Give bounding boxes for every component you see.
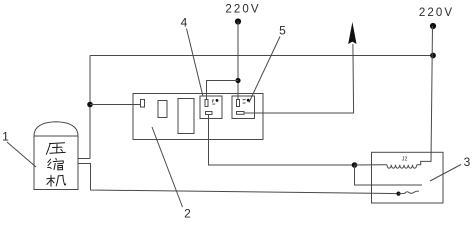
compressor shell [34, 136, 78, 190]
wire branch to relay socket 4 [207, 81, 239, 101]
wire junction to board slot [90, 104, 141, 106]
compressor char 缩 [48, 158, 64, 170]
leader line label 3 [430, 165, 461, 182]
relay 5 dash b [243, 102, 246, 104]
svg-text:220V: 220V [419, 7, 454, 19]
compressor char 压 [46, 143, 65, 155]
leader line label 2 [152, 127, 183, 207]
component rectangle small [158, 101, 167, 118]
svg-text:4: 4 [181, 16, 188, 30]
wire junction down to switch contact [355, 165, 423, 185]
junction dot heater feed [352, 162, 358, 168]
junction dot drop [235, 78, 240, 83]
svg-text:220V: 220V [225, 4, 260, 16]
wire right vertical 220V [431, 26, 433, 162]
relay 4 dash [212, 103, 215, 105]
wire 220V left drop [237, 22, 239, 101]
leader line label 5 [249, 37, 280, 103]
wire left vertical [89, 56, 91, 159]
switch contact dot [396, 192, 400, 196]
wire compressor top terminal [78, 158, 90, 160]
relay coil J2 [387, 165, 417, 169]
relay 5 vertical slot [237, 100, 240, 107]
relay socket 4 [200, 96, 222, 119]
wire coil right lead [417, 161, 431, 164]
svg-text:3: 3 [464, 155, 471, 169]
component rectangle large [178, 99, 194, 134]
relay 4 mark [212, 100, 214, 103]
wire top bus [90, 55, 433, 57]
svg-text:2: 2 [184, 207, 191, 221]
terminal dot 220V left [235, 18, 241, 24]
relay 5 dot [247, 99, 250, 102]
compressor dome [34, 122, 78, 136]
wire junction to coil [355, 164, 388, 166]
relay 5 dash a [243, 99, 246, 101]
arrow antenna [348, 22, 356, 44]
svg-text:1: 1 [2, 130, 9, 144]
wire compressor bottom terminal [78, 164, 399, 194]
relay 4 bottom slot [206, 112, 213, 115]
terminal dot 220V right [430, 23, 436, 29]
relay 5 bottom slot [237, 112, 245, 115]
switch blade [399, 191, 419, 193]
defrost heater box 3 [372, 152, 444, 203]
wire relay 5 output to arrow [244, 44, 354, 113]
terminal slot left [141, 100, 145, 108]
junction dot top bus right [430, 53, 436, 59]
svg-text:J2: J2 [402, 157, 408, 163]
protector board box 2 [133, 94, 263, 140]
leader line label 1 [7, 142, 36, 167]
relay 4 dot [216, 99, 219, 102]
junction dot left vertical [87, 102, 93, 108]
relay 4 vertical slot [205, 100, 208, 107]
compressor char 机 [47, 175, 66, 186]
wire relay 4 output down and across [209, 115, 355, 166]
relay socket 5 [232, 96, 255, 119]
leader line label 4 [187, 29, 204, 97]
svg-text:5: 5 [279, 24, 286, 38]
